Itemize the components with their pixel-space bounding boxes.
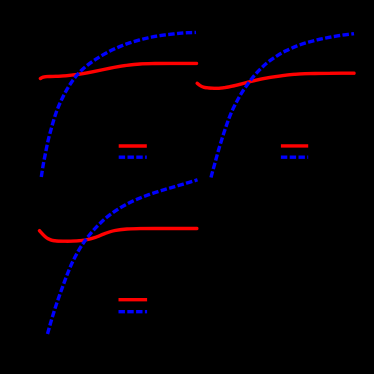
top-left legend: red solid sample line — [119, 144, 147, 147]
bottom-left panel: blue dashed curve — [48, 180, 198, 334]
top-left panel: blue dashed curve — [41, 32, 196, 177]
top-left legend: blue dashed sample line — [119, 155, 147, 158]
top-right panel: red solid curve — [197, 73, 354, 88]
bottom-left legend: blue dashed sample line — [119, 310, 148, 313]
top-right legend: blue dashed sample line — [281, 155, 308, 158]
bottom-left legend: red solid sample line — [119, 298, 148, 301]
top-left panel: red solid curve — [40, 63, 196, 78]
top-right panel: blue dashed curve — [211, 34, 354, 178]
bottom-left panel: red solid curve — [40, 229, 197, 242]
top-right legend: red solid sample line — [281, 144, 308, 147]
